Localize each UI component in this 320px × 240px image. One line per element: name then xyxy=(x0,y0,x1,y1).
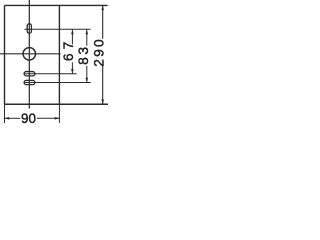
wire top slot centerline extension (dim ref A) xyxy=(24,28,90,30)
wire top edge of plate with extension to 290 dim xyxy=(5,4,108,6)
wire bottom edge of plate with extension to 290 dim xyxy=(5,103,109,105)
node lower slot 2 xyxy=(24,80,35,84)
wire vertical centerline xyxy=(28,0,30,109)
svg-text:83: 83 xyxy=(76,44,91,65)
wire dim line 83 xyxy=(86,29,88,46)
arrow up 83 xyxy=(86,30,89,35)
arrow left 90 xyxy=(5,117,10,120)
background xyxy=(0,0,113,133)
arrow up 67 xyxy=(71,30,74,35)
arrow down 290 xyxy=(101,100,104,105)
node mounting hole circle xyxy=(23,48,35,60)
node lower slot 1 xyxy=(24,72,35,76)
wire dim line 90 right part xyxy=(37,117,60,119)
wire 90 dim extension right xyxy=(58,104,60,123)
wire dim line 67 xyxy=(71,29,73,44)
wire 90 dim extension left xyxy=(4,104,6,123)
arrow up 290 xyxy=(101,5,104,10)
svg-text:290: 290 xyxy=(92,37,107,67)
wire horizontal centerline of circle xyxy=(0,53,61,55)
wire left edge of plate xyxy=(4,5,6,104)
wire slot1 centerline extension (dim ref B) xyxy=(24,73,77,75)
svg-text:90: 90 xyxy=(21,111,36,126)
svg-text:67: 67 xyxy=(61,38,76,61)
wire dim line 90 left part xyxy=(5,117,21,119)
wire dim line 290 xyxy=(102,5,104,38)
arrow right 90 xyxy=(55,117,60,120)
node top vertical slot xyxy=(27,24,31,34)
arrow down 67 xyxy=(71,69,74,74)
wire right edge of plate xyxy=(58,5,60,104)
arrow down 83 xyxy=(86,78,89,83)
wire slot2 centerline extension (dim ref C) xyxy=(24,82,91,84)
